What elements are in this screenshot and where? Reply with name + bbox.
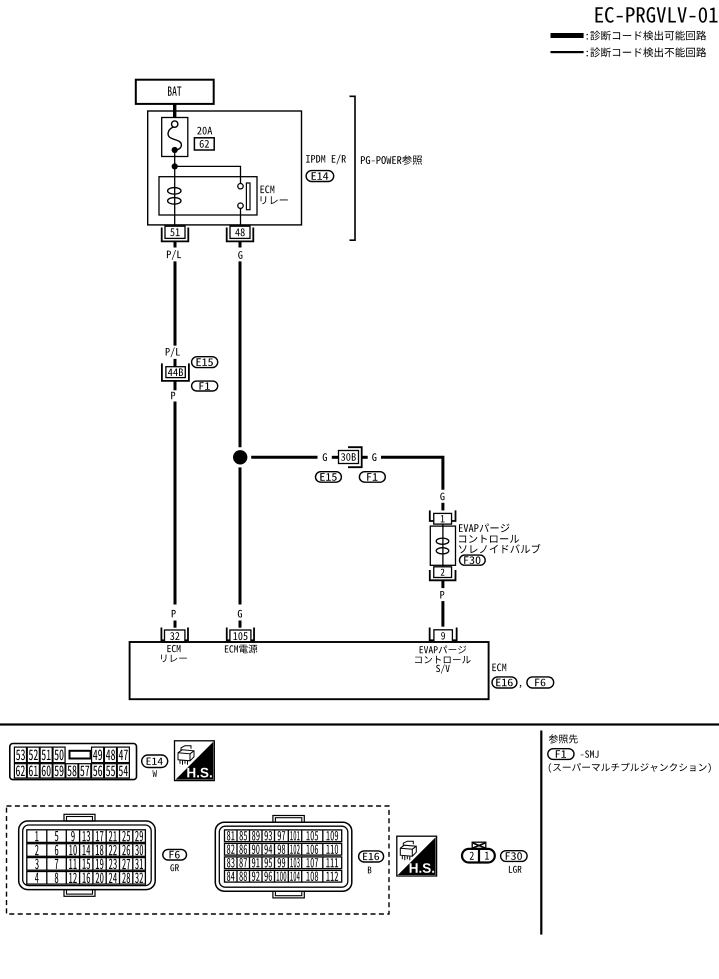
bracket PG-POWER reference [350, 96, 356, 240]
wire fuse to node [174, 157, 176, 167]
EVAP valve pin 2 [430, 567, 456, 581]
pin 51 (IPDM) [162, 226, 189, 241]
wire stub below 44B [174, 381, 177, 390]
wire color label G above pin 105 [238, 610, 242, 618]
comma [520, 685, 522, 688]
connector F6 face view [19, 814, 156, 896]
wire BAT to fuse [173, 104, 176, 118]
wire node to relay coil [174, 166, 176, 176]
fuse rating label 20A [197, 127, 212, 135]
wire relay coil to pin 51 [174, 215, 176, 226]
wire node to relay contact [175, 166, 241, 183]
pin 105 (ECM) [227, 628, 254, 643]
connector ref F6 (ECM) [527, 677, 554, 688]
wire color label P/L [167, 250, 181, 260]
wire junction to ECM pin 105 [239, 467, 242, 604]
connector 30B (SMJ passthrough) [339, 447, 362, 467]
EVAP valve pin 1 [430, 510, 456, 524]
pin 48 (IPDM) [227, 226, 254, 241]
wire P/L down to 44B [174, 261, 177, 345]
inspection logo H.S. (E16) [397, 836, 437, 876]
relay ECM relay [159, 177, 257, 215]
label -SMJ [581, 750, 599, 757]
IPDM E/R box [148, 111, 302, 225]
wire stub into pin 32 [174, 621, 177, 628]
legend label non-detectable circuit [587, 47, 707, 57]
battery BAT [136, 80, 214, 104]
wire color label G [238, 251, 242, 259]
connector ref F30 (valve) [460, 555, 486, 565]
wire stub into 30B [332, 456, 339, 459]
label EVAP purge control solenoid valve [459, 524, 541, 554]
EVAP purge control solenoid valve [430, 524, 455, 567]
connector ref F1 (SMJ) [548, 749, 574, 760]
connector ref E15 (30B) [316, 472, 342, 483]
wire P down to ECM pin 32 [174, 402, 177, 605]
pin 32 (ECM) [161, 628, 188, 643]
wire color label G left of 30B [323, 453, 327, 461]
wire relay contact to pin 48 [240, 215, 242, 226]
inspection logo H.S. (E14) [175, 741, 215, 781]
connector ref F1 (44B) [192, 381, 218, 391]
pin 9 (ECM) [430, 628, 457, 642]
wire color label P above pin 32 [172, 610, 176, 618]
title EC-PRGVLV-01 [596, 7, 718, 23]
fuse 20A [162, 118, 188, 157]
connector ref E14 (IPDM) [306, 171, 334, 182]
wire stub into valve pin 1 [441, 503, 444, 511]
wire stub into 44B [174, 359, 177, 367]
node junction in IPDM [172, 163, 178, 169]
connector ref F1 (30B) [359, 472, 385, 483]
connector ref F6 label [163, 849, 187, 871]
wire color label G right of 30B [372, 453, 376, 461]
wire stub pin 51 [174, 241, 177, 247]
wire stub right of 30B [362, 456, 368, 459]
fuse number 62 [194, 138, 214, 150]
label reference heading [549, 734, 578, 743]
label super multiple junction [549, 763, 711, 773]
label ECM relay [261, 186, 288, 205]
wire G down to junction [239, 261, 242, 447]
legend label detectable circuit [587, 31, 707, 41]
legend thin-line symbol (diagnosis not detectable) [551, 51, 584, 53]
connector 44B (SMJ passthrough) [162, 363, 189, 381]
connector ref E15 (44B) [192, 357, 218, 368]
connector E14 face view [10, 744, 137, 780]
section divider horizontal [0, 723, 719, 725]
label ECM [492, 664, 506, 672]
wire P down to ECM pin 9 [441, 601, 444, 627]
junction node G [233, 450, 247, 464]
wire color label P/L above 44B [166, 347, 180, 357]
label EVAP purge control SV terminal [415, 646, 471, 674]
section divider vertical [540, 731, 542, 935]
wire color label P below valve [440, 591, 444, 599]
connector E16 face view [215, 816, 351, 898]
label ECM relay terminal [161, 645, 187, 662]
connector ref F30 label [501, 851, 527, 873]
harness connector dashed box [7, 806, 390, 914]
label IPDM E/R [306, 155, 346, 165]
ECM box [130, 642, 489, 699]
wire stub into pin 105 [239, 621, 242, 628]
connector ref E16 label [359, 851, 384, 874]
wire color label P [171, 392, 175, 400]
wire 30B to EVAP valve [381, 456, 444, 490]
wire stub pin 48 [239, 241, 242, 247]
legend thick-line symbol (diagnosis detectable) [551, 33, 584, 38]
label ECM power terminal [225, 645, 258, 654]
connector F30 face view [462, 842, 495, 862]
connector ref E14 label [142, 755, 168, 777]
wire stub below valve pin 2 [441, 580, 444, 588]
label PG-POWER reference [361, 155, 422, 165]
wire junction to 30B [251, 456, 317, 459]
connector ref E16 (ECM) [492, 677, 517, 688]
wire color label G above valve [440, 493, 444, 501]
